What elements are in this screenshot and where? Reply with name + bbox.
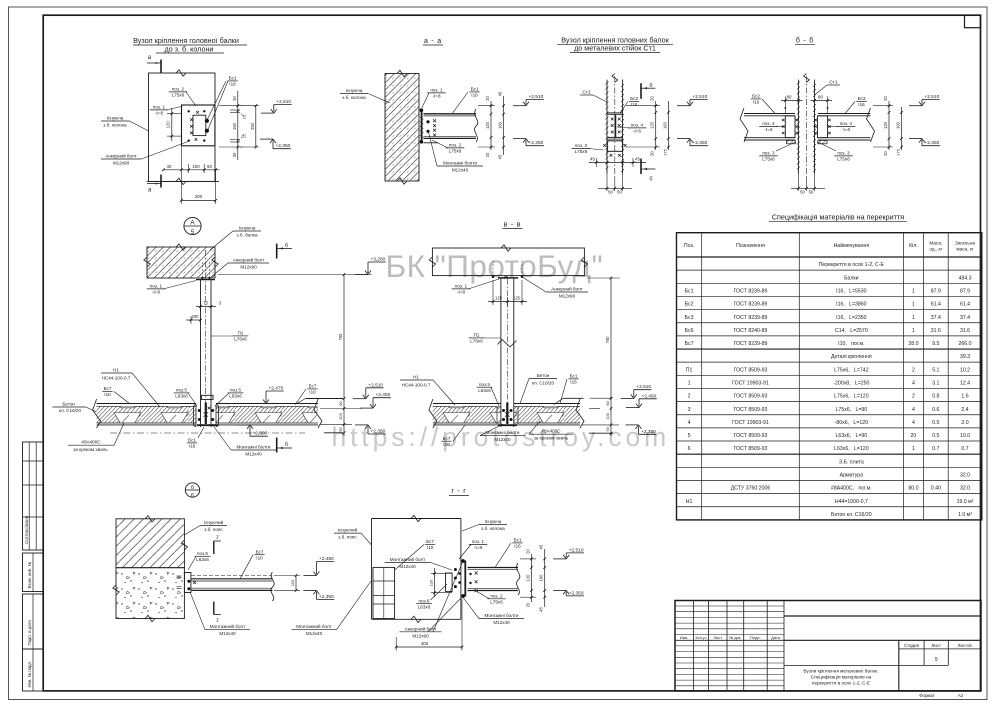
svg-text:Лист: Лист (713, 635, 722, 640)
view6 post break (498, 340, 517, 348)
svg-text:І16: І16 (631, 102, 638, 107)
svg-text:М12х40: М12х40 (399, 564, 416, 569)
svg-text:L63х6, L=120: L63х6, L=120 (834, 446, 869, 452)
svg-text:поз.6: поз.6 (419, 598, 430, 603)
svg-text:П1: П1 (686, 367, 693, 373)
svg-text:-80х6, L=120: -80х6, L=120 (835, 420, 868, 426)
svg-text:L75x6: L75x6 (172, 93, 185, 98)
svg-text:#8А400С: #8А400С (81, 440, 101, 445)
svg-text:І16: І16 (858, 102, 865, 107)
svg-text:Монтажний болт: Монтажний болт (210, 623, 246, 629)
svg-text:Анкерний болт: Анкерний болт (405, 625, 437, 631)
view1 column (149, 73, 216, 181)
svg-text:ГОСТ 19903-91: ГОСТ 19903-91 (732, 420, 769, 426)
svg-text:0.5: 0.5 (932, 433, 939, 439)
svg-text:20: 20 (911, 433, 917, 439)
view8 dim 400 (396, 646, 462, 648)
title block right divisions (784, 615, 981, 617)
svg-text:45: 45 (590, 156, 595, 161)
svg-text:Подп. и дата: Подп. и дата (27, 620, 32, 646)
svg-text:1: 1 (912, 302, 915, 308)
svg-text:маса, кг: маса, кг (956, 246, 973, 251)
svg-text:6: 6 (688, 446, 691, 452)
view6 hanger P1 (500, 279, 502, 404)
svg-text:Кіл.: Кіл. (909, 243, 918, 249)
svg-text:кл. С16/20: кл. С16/20 (532, 381, 555, 386)
view3 dim chain right2 (667, 101, 669, 150)
view5 dim 75 3 (196, 306, 216, 308)
svg-text:П1: П1 (474, 333, 480, 338)
svg-text:№ док.: № док. (729, 636, 741, 640)
svg-text:з.б. балка: з.б. балка (237, 233, 258, 238)
svg-text:160: 160 (662, 121, 667, 129)
svg-text:М12х40: М12х40 (306, 631, 323, 636)
svg-text:12.4: 12.4 (960, 381, 970, 387)
svg-text:20: 20 (650, 96, 655, 101)
svg-text:Бс1: Бс1 (188, 438, 196, 443)
svg-text:30: 30 (650, 151, 655, 156)
svg-text:10.0: 10.0 (960, 433, 970, 439)
svg-text:45: 45 (635, 156, 640, 161)
svg-text:L63х6, L=90: L63х6, L=90 (836, 433, 868, 439)
svg-text:І10: І10 (443, 442, 450, 447)
svg-text:Бс3: Бс3 (630, 96, 638, 101)
svg-text:Монтажні болти: Монтажні болти (237, 445, 271, 450)
svg-text:28.0: 28.0 (908, 341, 918, 347)
svg-text:L63х6: L63х6 (175, 394, 188, 399)
view2 beam Bc1 (424, 113, 477, 115)
svg-text:100: 100 (192, 164, 200, 169)
view3 gusset poz4 edge-on (614, 115, 616, 138)
view8 welds bolts on beam (475, 572, 478, 575)
view3 beam bottom flange (607, 136, 623, 138)
svg-text:М12х40: М12х40 (245, 452, 262, 457)
svg-text:Монтажні болти: Монтажні болти (486, 430, 520, 435)
svg-text:І16: І16 (753, 100, 760, 105)
svg-text:поз. 3: поз. 3 (575, 143, 588, 148)
svg-text:Існуюча: Існуюча (346, 88, 363, 93)
view2 break right (475, 109, 478, 142)
svg-text:б - б: б - б (796, 37, 814, 45)
view5 section mark b top (276, 244, 278, 259)
view1 beam end profile (193, 115, 206, 135)
svg-text:Бс7: Бс7 (685, 341, 694, 347)
svg-text:Лист: Лист (931, 643, 941, 648)
svg-text:4: 4 (688, 420, 691, 426)
view1 base plate poz2 (182, 105, 215, 146)
svg-text:-t=6: -t=6 (764, 127, 772, 132)
svg-text:0.7: 0.7 (961, 446, 968, 452)
svg-text:15: 15 (242, 133, 247, 138)
spec table grid (677, 233, 982, 520)
svg-text:Изм.: Изм. (680, 635, 689, 640)
view8 dim chain right1 (531, 554, 533, 602)
svg-text:поз.5: поз.5 (479, 382, 490, 387)
svg-text:Бс6: Бс6 (685, 328, 694, 334)
view4 gusset left poz4 (785, 116, 795, 138)
stadia list table (898, 640, 900, 691)
svg-text:2: 2 (912, 367, 915, 373)
svg-text:Ст1: Ст1 (829, 80, 838, 86)
view6 bearing plate (498, 277, 518, 279)
svg-text:Специфікація матеріалів на: Специфікація матеріалів на (811, 674, 872, 679)
svg-text:Кол.уч: Кол.уч (695, 636, 706, 640)
svg-text:1: 1 (912, 315, 915, 321)
view7 section marks z (213, 541, 215, 554)
view8 dim chain right2 (544, 549, 546, 607)
view4 gusset right poz4 (818, 116, 828, 138)
svg-text:31.6: 31.6 (931, 328, 941, 334)
svg-text:Позначення: Позначення (736, 243, 765, 249)
svg-text:19.0 м²: 19.0 м² (957, 499, 974, 505)
svg-text:9.5: 9.5 (932, 341, 939, 347)
svg-text:Деталі кріплення: Деталі кріплення (831, 354, 872, 360)
svg-text:Маса,: Маса, (929, 240, 942, 245)
svg-text:поз.6: поз.6 (197, 551, 208, 556)
svg-text:2.0: 2.0 (961, 420, 968, 426)
view5 section mark b bottom (276, 438, 278, 453)
view8 angle poz6 left (446, 573, 453, 592)
svg-text:120: 120 (526, 574, 531, 582)
svg-text:Формат: Формат (919, 693, 935, 698)
svg-text:L63х6: L63х6 (196, 557, 209, 562)
svg-text:Монтажні болти: Монтажні болти (485, 613, 519, 618)
view3 welds (611, 118, 614, 121)
svg-text:40: 40 (167, 164, 172, 169)
svg-text:М12х90: М12х90 (559, 294, 576, 299)
svg-text:31.6: 31.6 (960, 328, 970, 334)
svg-text:П1: П1 (238, 331, 244, 336)
svg-text:0.6: 0.6 (932, 407, 939, 413)
view5 bearing plate (196, 279, 215, 281)
svg-text:L75x6: L75x6 (449, 149, 462, 154)
svg-text:Найменування: Найменування (834, 242, 870, 249)
svg-text:Взам. инв. №: Взам. инв. № (27, 561, 32, 588)
svg-text:І16: І16 (229, 82, 236, 87)
svg-text:37.4: 37.4 (931, 315, 941, 321)
svg-text:Балки: Балки (844, 275, 859, 281)
view1 welds (190, 118, 193, 121)
view1 dim 200 (181, 199, 215, 201)
svg-text:Листов: Листов (957, 643, 972, 648)
svg-text:45: 45 (498, 154, 503, 159)
svg-text:Анкерний болт: Анкерний болт (105, 153, 137, 159)
svg-text:1: 1 (688, 381, 691, 387)
view6 dim 750 right (610, 278, 612, 436)
svg-text:М12х90: М12х90 (412, 633, 429, 638)
svg-text:2: 2 (912, 394, 915, 400)
svg-text:L75x6: L75x6 (490, 600, 503, 605)
svg-text:45: 45 (539, 544, 544, 549)
svg-text:L75x6: L75x6 (762, 157, 775, 162)
svg-text:з.б. пояс: з.б. пояс (204, 527, 223, 532)
svg-text:5: 5 (191, 229, 195, 236)
svg-text:5.1: 5.1 (932, 367, 939, 373)
svg-text:перекриття в осях 1-2, С-Е: перекриття в осях 1-2, С-Е (812, 680, 870, 685)
svg-text:-200х8, L=250: -200х8, L=250 (833, 381, 869, 387)
svg-text:50: 50 (800, 190, 805, 195)
svg-text:з.б. колона: з.б. колона (103, 123, 127, 128)
view7 block break marks (145, 516, 155, 522)
svg-text:І10: І10 (104, 392, 111, 397)
svg-text:ГОСТ 8509-93: ГОСТ 8509-93 (734, 433, 768, 439)
view8 column outline (371, 519, 373, 620)
svg-text:266.0: 266.0 (959, 341, 972, 347)
svg-text:М12х40: М12х40 (219, 631, 236, 636)
svg-text:80: 80 (787, 95, 792, 100)
svg-text:а - а: а - а (424, 38, 442, 45)
svg-text:поз. 2: поз. 2 (172, 87, 185, 92)
view6 dim 125 125 (488, 301, 527, 303)
svg-text:І16: І16 (570, 380, 577, 385)
svg-text:30: 30 (232, 96, 237, 101)
view5 slab breaks (93, 399, 101, 428)
svg-text:20: 20 (883, 151, 888, 156)
svg-text:0.40: 0.40 (931, 486, 941, 492)
svg-text:М12х90: М12х90 (113, 161, 130, 166)
svg-text:І10: І10 (256, 556, 263, 561)
svg-text:120: 120 (485, 121, 490, 129)
svg-text:І16: І16 (471, 93, 478, 98)
svg-text:175: 175 (662, 148, 667, 155)
view7 angle poz6 (184, 573, 191, 593)
view1 bolts (188, 110, 190, 112)
svg-text:ГОСТ 8509-93: ГОСТ 8509-93 (734, 407, 768, 413)
view5 dim 200 (186, 319, 201, 321)
svg-text:20: 20 (526, 602, 531, 607)
svg-text:з.б. колона: з.б. колона (342, 95, 366, 100)
svg-text:б: б (649, 83, 652, 89)
svg-text:до металевих стійок Ст1: до металевих стійок Ст1 (574, 44, 656, 53)
svg-text:кл. С16/20: кл. С16/20 (59, 408, 82, 413)
view6 center connection (500, 404, 502, 428)
svg-text:Ст1: Ст1 (582, 90, 591, 96)
view4 dim 50 50 (791, 187, 825, 189)
view5 anchor bolts top (201, 277, 203, 279)
view1 dim 250 (255, 106, 257, 147)
svg-text:80: 80 (818, 95, 823, 100)
view3 bracket poz3 (607, 141, 622, 152)
svg-text:М12х90: М12х90 (240, 265, 257, 270)
svg-text:ДСТУ 3760:2006: ДСТУ 3760:2006 (731, 486, 771, 492)
svg-text:4: 4 (912, 420, 915, 426)
view3 post flange ticks (606, 82, 609, 85)
view7 node circle B6 (185, 483, 199, 497)
corner doc box (965, 15, 981, 28)
svg-text:поз. 2: поз. 2 (490, 593, 503, 598)
svg-text:L76x6: L76x6 (234, 337, 247, 342)
svg-text:І16: І16 (514, 544, 521, 549)
svg-text:ГОСТ 8509-93: ГОСТ 8509-93 (734, 367, 768, 373)
svg-text:37.4: 37.4 (960, 315, 970, 321)
svg-text:160: 160 (232, 122, 237, 130)
svg-text:-t=6: -t=6 (842, 127, 850, 132)
view1 dim chain bottom (163, 169, 219, 171)
svg-text:L63х6: L63х6 (418, 605, 431, 610)
svg-text:ГОСТ 19903-91: ГОСТ 19903-91 (732, 381, 769, 387)
svg-text:100: 100 (605, 412, 610, 419)
svg-text:поз. 4: поз. 4 (762, 121, 775, 126)
svg-text:L75x6: L75x6 (837, 157, 850, 162)
view8 beam I10 end view (373, 567, 395, 618)
view8 connection plate (464, 561, 466, 597)
svg-text:НС44-100-0.7: НС44-100-0.7 (402, 383, 431, 388)
svg-text:Монтажні болти: Монтажні болти (443, 161, 477, 166)
svg-text:50: 50 (608, 190, 613, 195)
view2 welds (433, 119, 436, 122)
svg-text:І10: І10 (427, 545, 434, 550)
svg-text:50: 50 (617, 190, 622, 195)
svg-text:20: 20 (883, 96, 888, 101)
view3 beam top flange (607, 112, 623, 114)
svg-text:Специфікація матеріалів на пер: Специфікація матеріалів на перекриття (772, 212, 904, 221)
view1 dim 120 inner (171, 108, 173, 141)
title block main frame (675, 601, 981, 691)
view3 dim chain right1 (655, 101, 657, 150)
svg-text:поз. 4: поз. 4 (631, 123, 644, 128)
svg-text:Бс1: Бс1 (471, 87, 479, 92)
svg-text:45: 45 (498, 91, 503, 96)
view2 angle seat (424, 142, 439, 144)
svg-text:ГОСТ 8239-89: ГОСТ 8239-89 (734, 302, 768, 308)
view4 beam Bc2 left (744, 113, 795, 115)
svg-text:120: 120 (650, 121, 655, 129)
svg-text:ГОСТ 8509-93: ГОСТ 8509-93 (734, 394, 768, 400)
svg-text:80.0: 80.0 (908, 486, 918, 492)
view7 beam Bc7 (191, 575, 272, 577)
svg-text:ГОСТ 8239-89: ГОСТ 8239-89 (734, 315, 768, 321)
svg-text:L75х6, L=120: L75х6, L=120 (834, 394, 869, 400)
svg-text:30: 30 (232, 152, 237, 157)
view4 dim chain right2 (901, 107, 903, 150)
svg-text:120: 120 (883, 121, 888, 129)
svg-text:Стадия: Стадия (904, 643, 920, 648)
svg-text:Вузли кріплення металевих бало: Вузли кріплення металевих балок. (803, 668, 878, 673)
svg-text:125: 125 (495, 295, 503, 300)
svg-text:Існуючий: Існуючий (204, 519, 224, 525)
svg-text:з.б. пояс: з.б. пояс (338, 535, 357, 540)
svg-text:І16: І16 (189, 444, 196, 449)
view3 section mark b bottom (640, 159, 642, 175)
svg-text:БК "ПротоБуд": БК "ПротоБуд" (386, 248, 604, 284)
svg-text:87.9: 87.9 (960, 288, 970, 294)
view2 hatched column (385, 74, 419, 182)
svg-text:L75х6, L=90: L75х6, L=90 (836, 407, 868, 413)
svg-text:120: 120 (166, 121, 171, 129)
svg-text:до з. б. колони: до з. б. колони (165, 44, 214, 53)
svg-text:ГОСТ 8239-89: ГОСТ 8239-89 (734, 341, 768, 347)
svg-text:І16, L=2350: І16, L=2350 (836, 315, 867, 321)
svg-text:поз. 1: поз. 1 (153, 105, 166, 110)
svg-text:Бс2: Бс2 (752, 94, 760, 99)
view4 beam Bc3 right (818, 113, 871, 115)
attribute box vzam inv (23, 553, 44, 592)
svg-text:ГОСТ 8509-93: ГОСТ 8509-93 (734, 446, 768, 452)
view5 existing rc beam hatched (147, 247, 215, 278)
view4 dim 80 80 (781, 100, 803, 102)
svg-text:поз. 3: поз. 3 (837, 151, 850, 156)
view1 dim chain right (237, 91, 239, 160)
svg-text:175: 175 (896, 148, 901, 155)
svg-text:Подп.: Подп. (750, 635, 761, 640)
svg-text:Арматура: Арматура (840, 473, 864, 479)
view1 section mark a bottom (160, 175, 162, 188)
svg-text:160: 160 (896, 121, 901, 129)
svg-text:750: 750 (338, 333, 343, 341)
svg-text:484.3: 484.3 (959, 275, 972, 281)
svg-text:б: б (285, 243, 288, 249)
svg-text:32.0: 32.0 (960, 486, 970, 492)
svg-text:45: 45 (539, 607, 544, 612)
svg-text:1: 1 (912, 446, 915, 452)
attribute strip soglasovano table (23, 442, 44, 550)
svg-text:М12х40: М12х40 (493, 620, 510, 625)
view4 post (797, 80, 799, 174)
svg-text:поз. 1: поз. 1 (472, 539, 485, 544)
svg-text:1.0 м³: 1.0 м³ (958, 512, 972, 518)
svg-text:4: 4 (912, 381, 915, 387)
svg-text:-t=6: -t=6 (633, 129, 641, 134)
svg-text:поз. 1: поз. 1 (150, 284, 163, 289)
svg-text:ГОСТ 8239-89: ГОСТ 8239-89 (734, 288, 768, 294)
svg-text:5: 5 (688, 433, 691, 439)
svg-text:А: А (190, 220, 195, 227)
svg-text:L75х6, L=742: L75х6, L=742 (834, 367, 869, 373)
svg-text:С14, L=2570: С14, L=2570 (835, 328, 868, 334)
svg-text:20: 20 (526, 549, 531, 554)
svg-text:Бетон кл. С16/20: Бетон кл. С16/20 (831, 512, 872, 518)
svg-text:3.1: 3.1 (932, 381, 939, 387)
svg-text:з.б. колона: з.б. колона (481, 526, 505, 531)
svg-text:б: б (649, 177, 652, 183)
view2 bolts (420, 108, 424, 112)
svg-text:61.4: 61.4 (931, 302, 941, 308)
svg-text:0.5: 0.5 (932, 420, 939, 426)
svg-text:Бс1: Бс1 (229, 76, 237, 81)
svg-text:Існуючий: Існуючий (338, 527, 358, 533)
svg-text:4: 4 (912, 407, 915, 413)
view8 beam Bc1 right (468, 567, 519, 569)
svg-text:поз. 1: поз. 1 (430, 88, 443, 93)
svg-text:Н1: Н1 (113, 368, 119, 373)
svg-text:Бс7: Бс7 (256, 549, 264, 554)
svg-text:250: 250 (250, 122, 255, 130)
view5 floor slab right part (216, 403, 318, 405)
svg-text:60: 60 (207, 164, 212, 169)
svg-text:поз.5: поз.5 (230, 388, 241, 393)
view3 section mark b top (640, 83, 642, 99)
svg-text:1.6: 1.6 (961, 394, 968, 400)
svg-text:А2: А2 (958, 693, 964, 698)
svg-text:160: 160 (498, 121, 503, 129)
view5 hanger P1 (200, 280, 202, 404)
view4 seats poz3 (787, 140, 796, 143)
title block left table (693, 601, 695, 691)
svg-text:б: б (285, 442, 288, 448)
view7 wall block concrete bottom (116, 568, 184, 619)
svg-text:Бс7: Бс7 (309, 384, 317, 389)
attribute box podp i data (23, 594, 44, 649)
svg-text:М12х40: М12х40 (452, 168, 469, 173)
view7 wall block hatched top (116, 519, 184, 568)
view1 section mark a top (160, 60, 162, 74)
svg-text:ГОСТ 8240-89: ГОСТ 8240-89 (734, 328, 768, 334)
svg-text:Монтажний болт: Монтажний болт (296, 623, 332, 629)
svg-text:поз. 2: поз. 2 (449, 143, 462, 148)
svg-text:200: 200 (195, 194, 203, 199)
svg-text:#8А400С: #8А400С (541, 429, 561, 434)
svg-text:Поз.: Поз. (684, 243, 694, 249)
